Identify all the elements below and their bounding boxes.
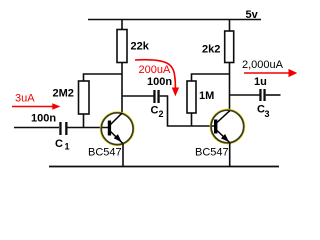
- svg-text:2: 2: [159, 109, 164, 119]
- arrow output current red: [244, 72, 289, 74]
- wire collector node to 2M2 top: [84, 74, 123, 82]
- wire Q1 collector to C2: [122, 95, 154, 97]
- svg-text:1M: 1M: [199, 90, 214, 102]
- svg-text:C: C: [151, 105, 159, 117]
- capacitor C3: [259, 89, 261, 101]
- resistor 2k2: [225, 31, 234, 63]
- resistor 1M: [187, 81, 196, 113]
- svg-text:2k2: 2k2: [202, 44, 220, 56]
- arrow 200uA curved red: [135, 60, 175, 88]
- wire Q2 emitter lead: [229, 143, 231, 167]
- svg-text:2M2: 2M2: [53, 88, 74, 100]
- transistor Q1 BC547: [101, 112, 134, 145]
- svg-text:200uA: 200uA: [139, 64, 171, 76]
- wire 22k top lead: [121, 20, 123, 31]
- wire 2k2 top lead: [229, 20, 231, 32]
- svg-text:100n: 100n: [31, 113, 56, 125]
- transistor Q2 BC547: [210, 109, 244, 143]
- wire collector node to 1M top: [192, 74, 230, 82]
- svg-text:3uA: 3uA: [15, 93, 35, 105]
- svg-text:22k: 22k: [131, 41, 150, 53]
- arrow input current red: [12, 106, 53, 108]
- wire Q1 emitter lead: [122, 144, 124, 167]
- capacitor C1: [59, 122, 61, 135]
- wire input to C1: [14, 127, 59, 129]
- resistor 2M2: [79, 81, 90, 114]
- svg-text:5v: 5v: [246, 9, 259, 21]
- svg-text:C: C: [55, 138, 63, 150]
- wire top supply rail: [88, 19, 261, 21]
- svg-text:BC547: BC547: [88, 147, 122, 159]
- svg-text:BC547: BC547: [195, 147, 229, 159]
- svg-text:100n: 100n: [147, 76, 172, 88]
- wire C1 to Q1 base: [68, 127, 109, 129]
- svg-text:3: 3: [265, 109, 270, 119]
- wire Q2 collector to C3: [230, 94, 260, 96]
- wire Q1 collector lead: [121, 63, 123, 114]
- wire bottom ground rail: [49, 166, 279, 168]
- wire Q2 collector lead: [229, 63, 231, 112]
- svg-text:2,000uA: 2,000uA: [242, 59, 284, 71]
- wire C3 output: [266, 94, 281, 96]
- svg-text:1: 1: [65, 142, 70, 152]
- capacitor C2: [153, 90, 155, 103]
- svg-text:1u: 1u: [254, 76, 267, 88]
- resistor 22k: [117, 30, 127, 63]
- wire 1M bottom lead: [191, 113, 193, 126]
- wire 2M2 bottom lead: [83, 114, 85, 128]
- wire C2 to Q2 base: [160, 96, 214, 126]
